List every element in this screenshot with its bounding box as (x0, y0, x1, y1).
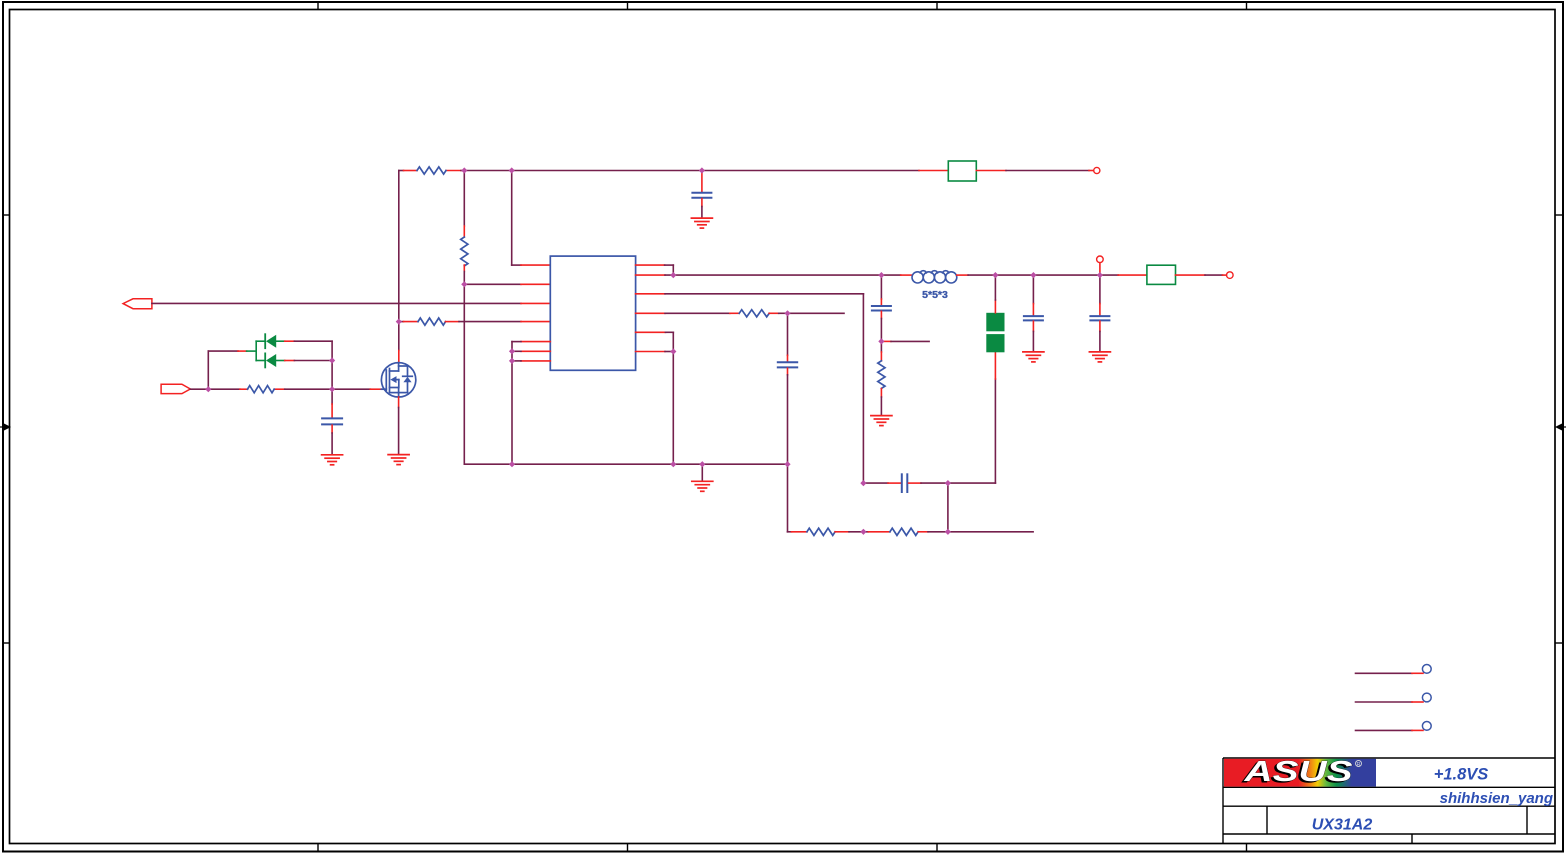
wire stub right of snubber node (881, 340, 929, 342)
node diode anode junction (329, 357, 335, 363)
node comp lower L junction (860, 529, 866, 535)
wire pin L6 (512, 350, 550, 352)
transistor Q1 (N-MOSFET) (381, 363, 415, 397)
node R4 net junction (784, 310, 790, 316)
svg-text:ASUS: ASUS (1243, 756, 1352, 788)
ground (C1) (691, 218, 712, 228)
ground (C8) (1089, 352, 1110, 362)
wire gnd stub (701, 464, 703, 480)
ground (C2) (322, 455, 343, 465)
jumper F2 (green box on output) (1147, 265, 1176, 284)
node boost/L1 junction (509, 167, 515, 173)
wire pin R1 to output node (636, 265, 674, 275)
test point TP3 (title area middle) (1356, 693, 1432, 702)
node out/C6 junction (992, 272, 998, 278)
resistor R3 (drain sense to pin L4) (399, 318, 551, 325)
node comp upper L junction (860, 480, 866, 486)
junction dots (205, 167, 1103, 535)
wire output to connector circle (1176, 272, 1234, 279)
node gnd rail stub junction (699, 461, 705, 467)
node gnd rail R junction (784, 461, 790, 467)
test point TP4 (title area bottom) (1356, 722, 1432, 731)
capacitor C3 (snubber cap at switch node) (872, 275, 891, 341)
resistor R5 (snubber resistor vertical) (878, 341, 885, 414)
node SW/C3 junction (878, 272, 884, 278)
port P1 (left output arrow) (123, 299, 152, 309)
wire FB to pin L2 (464, 284, 550, 464)
resistor R4 (gate resistor) (248, 386, 275, 393)
wire output net after inductor (957, 274, 1147, 276)
wire gate net horizontal (190, 388, 381, 390)
wire switch node (pin R2) to inductor (636, 274, 912, 276)
port P2 (gate input arrow) (161, 384, 190, 393)
node out/C7 junction (1030, 272, 1036, 278)
wire source to ground (398, 397, 400, 453)
node gate port junction (205, 386, 211, 392)
test point TP1 on output (1097, 256, 1104, 275)
node comp lower R junction (945, 529, 951, 535)
resistor R1 (top boost resistor) (417, 167, 446, 174)
wire comp divider vertical (947, 483, 949, 532)
node SW R1/R2 junction (670, 272, 676, 278)
wire boost net top horizontal (399, 170, 949, 172)
test point TP2 (title area top) (1356, 665, 1432, 674)
wire diode anodes to gate net (285, 341, 332, 389)
wire pin L7 (512, 360, 550, 362)
op-amp U1 (PWM controller IC body) (550, 256, 635, 370)
node gnd rail L junction (509, 461, 515, 467)
svg-text:UX31A2: UX31A2 (1312, 817, 1373, 834)
wire pin L5 corner (512, 342, 550, 465)
svg-text:+1.8VS: +1.8VS (1434, 766, 1489, 784)
ground (snubber) (871, 416, 892, 426)
resistor R6 (pin R4 series resistor) (636, 310, 844, 317)
capacitor C5 (series comp cap) (863, 474, 995, 492)
svg-text:shihhsien_yang: shihhsien_yang (1440, 790, 1553, 807)
ASUS logo (1224, 756, 1376, 790)
node boost/R1 junction (461, 167, 467, 173)
node out/C8 junction (1097, 272, 1103, 278)
wire enable net to pin L3 (152, 302, 550, 304)
resistor R7 (comp lower left) (788, 528, 869, 535)
capacitor C8 (output cap 2) (1090, 275, 1109, 351)
node L6 junction (509, 348, 515, 354)
node gnd rail M junction (670, 461, 676, 467)
wire drain vertical (398, 171, 400, 363)
node snubber junction (878, 338, 884, 344)
value label 5*5*3 (922, 289, 948, 301)
node FB junction (461, 281, 467, 287)
wire BST pin L1 (512, 171, 551, 266)
capacitor C4 (comp cap mid) (778, 313, 797, 464)
diode D1 (dual diode, green) (247, 334, 285, 367)
ground (C7) (1023, 352, 1044, 362)
inductor L1 5*5*3 (912, 271, 957, 283)
node L7 junction (509, 358, 515, 364)
jumper F1 (green box on boost net) (948, 161, 976, 181)
capacitor C1 (boost cap) (692, 172, 711, 217)
ground (rail) (692, 481, 713, 491)
capacitor C2 (gate cap) (322, 389, 342, 453)
resistor R2 (vertical divider) (461, 171, 468, 285)
resistor R8 (comp lower right) (868, 528, 1033, 535)
polymer cap C6 (green blocks) (986, 275, 1004, 483)
node gate/C2 junction (329, 386, 335, 392)
wire pin R5 corner (636, 332, 674, 351)
node boost/C1 junction (699, 167, 705, 173)
wire diode branch riser (208, 351, 246, 389)
wire boost right + node circle (976, 167, 1100, 173)
capacitor C7 (output cap 1) (1024, 275, 1043, 351)
node comp upper R junction (945, 480, 951, 486)
svg-text:R: R (1357, 762, 1361, 768)
node drain/R3 junction (396, 319, 402, 325)
svg-text:5*5*3: 5*5*3 (922, 289, 948, 301)
ground (Q1 source) (388, 455, 409, 465)
wire comp rail vertical (787, 464, 789, 532)
node R6 junction (670, 348, 676, 354)
wire pin R3 to comp network (636, 294, 864, 483)
wire analog gnd rail (464, 463, 787, 465)
wire pin R6 to gnd rail (636, 352, 674, 465)
